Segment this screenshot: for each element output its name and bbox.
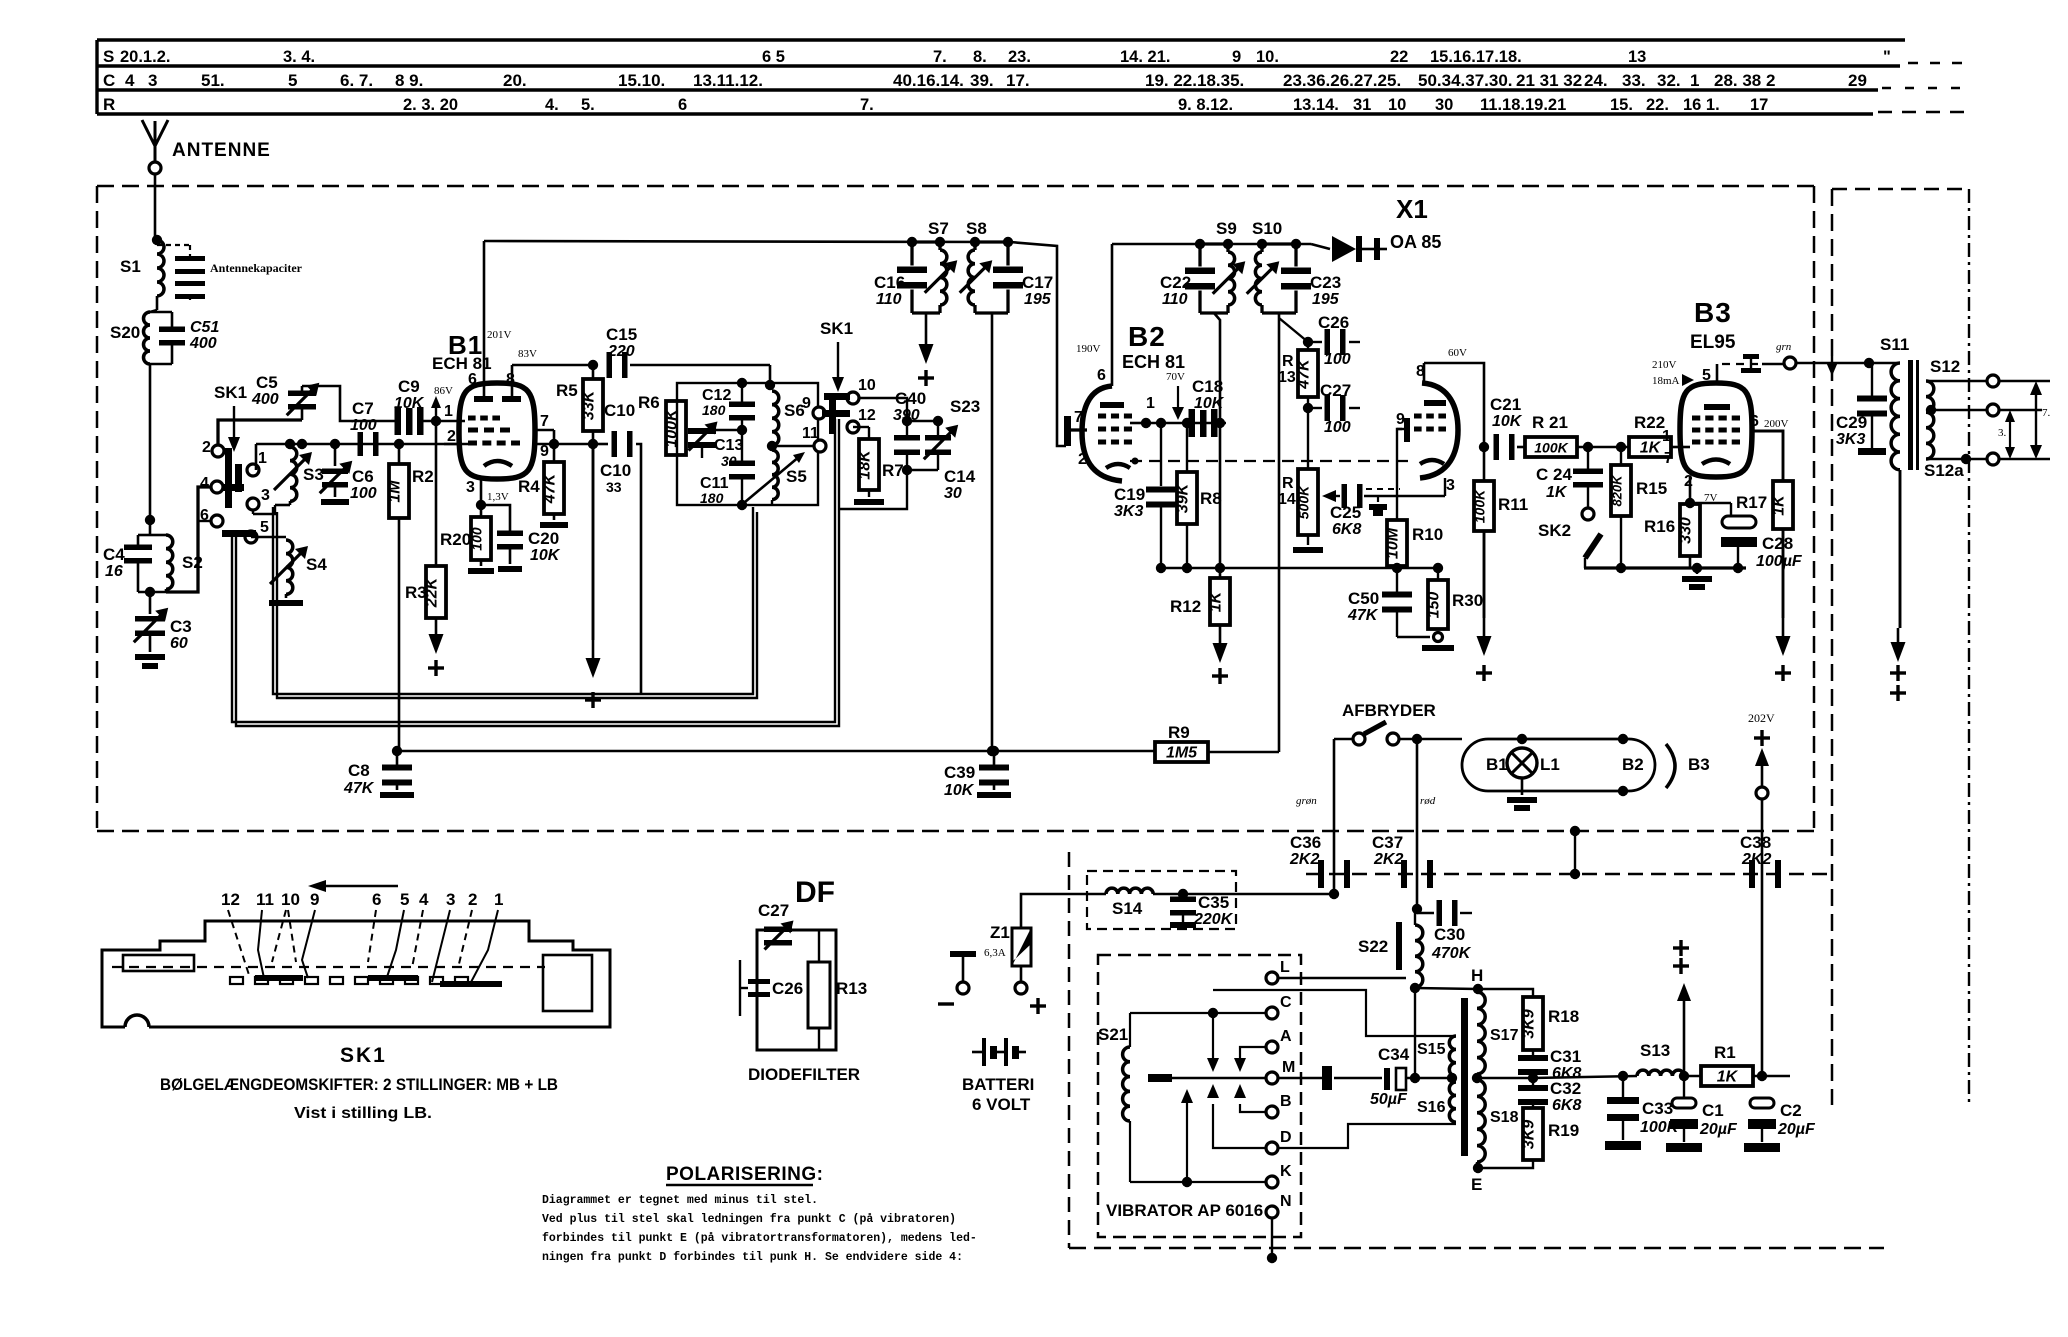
svg-text:C: C	[103, 71, 115, 90]
svg-text:R: R	[103, 95, 115, 114]
resistor R14 500K	[1293, 469, 1323, 553]
resistor R13 (DF)	[808, 930, 830, 1050]
svg-text:2: 2	[1684, 473, 1693, 490]
wire B2 pin8 to C21 node	[1424, 363, 1484, 447]
svg-text:C30: C30	[1434, 925, 1465, 944]
capacitor C9	[302, 386, 465, 435]
svg-text:B2: B2	[1128, 321, 1166, 352]
tank C16/S7	[897, 237, 957, 313]
SK1 leader lines	[228, 910, 498, 984]
svg-text:190V: 190V	[1076, 343, 1101, 355]
svg-text:2K2: 2K2	[1289, 851, 1319, 868]
svg-text:16: 16	[105, 563, 123, 580]
svg-text:R15: R15	[1636, 479, 1667, 498]
vibrator contact wires and arrows	[1130, 1008, 1277, 1263]
capacitor C38 2K2 feedthrough	[1749, 860, 1755, 888]
svg-text:31: 31	[1353, 96, 1371, 114]
svg-text:B2: B2	[1622, 755, 1644, 774]
B2 pin7 plate	[1064, 416, 1071, 446]
svg-text:3K3: 3K3	[1114, 503, 1143, 520]
svg-text:S21: S21	[1098, 1025, 1128, 1044]
wire C40 bottom to SK1 riser	[839, 470, 907, 509]
capacitor C24 1K	[1573, 447, 1603, 508]
wire S10 diagonal to C26 spine	[1279, 318, 1308, 342]
lamp L1	[1507, 748, 1537, 778]
svg-text:10.: 10.	[1256, 48, 1279, 66]
svg-text:202V: 202V	[1748, 711, 1775, 725]
svg-text:C32: C32	[1550, 1079, 1581, 1098]
svg-text:C31: C31	[1550, 1047, 1581, 1066]
svg-text:S13: S13	[1640, 1041, 1670, 1060]
svg-text:C39: C39	[944, 763, 975, 782]
svg-text:5: 5	[288, 71, 297, 90]
SK1 direction arrow	[308, 880, 398, 892]
svg-text:32.: 32.	[1657, 71, 1681, 90]
switch AFBRYDER	[1353, 722, 1462, 745]
wire S6/S5 tap to terminal 11	[772, 445, 814, 447]
wire R9 to S10 riser	[1208, 751, 1279, 754]
wire B3 pin5 topcap	[1717, 354, 1784, 383]
capacitor C11	[729, 430, 755, 510]
fuse Z1	[1012, 928, 1031, 994]
svg-text:DF: DF	[795, 876, 835, 909]
svg-text:S16: S16	[1417, 1099, 1446, 1116]
svg-text:470K: 470K	[1431, 945, 1472, 962]
svg-text:R2: R2	[412, 467, 434, 486]
svg-text:R30: R30	[1452, 591, 1483, 610]
svg-text:3: 3	[1446, 477, 1455, 494]
svg-text:OA 85: OA 85	[1390, 232, 1441, 252]
svg-text:15.: 15.	[1610, 96, 1633, 114]
capacitor C7	[358, 432, 364, 456]
svg-text:ECH 81: ECH 81	[1122, 352, 1185, 372]
output terminals	[1987, 375, 1999, 387]
svg-text:3: 3	[261, 487, 270, 504]
svg-text:S14: S14	[1112, 899, 1143, 918]
trimmer C5	[218, 383, 319, 446]
B3 cathode wire	[1689, 477, 1692, 507]
svg-text:20.: 20.	[503, 71, 527, 90]
svg-text:POLARISERING:: POLARISERING:	[666, 1164, 823, 1185]
svg-text:C16: C16	[874, 273, 905, 292]
svg-text:12: 12	[858, 407, 876, 424]
capacitor C51	[150, 312, 185, 364]
wire L to S22/H	[1278, 977, 1406, 979]
svg-text:K: K	[1280, 1163, 1292, 1180]
svg-text:C38: C38	[1740, 833, 1771, 852]
svg-text:33: 33	[606, 479, 622, 495]
svg-text:390: 390	[893, 407, 920, 424]
svg-text:201V: 201V	[487, 329, 512, 341]
svg-text:19. 22.18.35.: 19. 22.18.35.	[1145, 71, 1244, 90]
feedback loop wires pair A	[273, 507, 757, 698]
wire T10 to C40	[859, 398, 907, 421]
svg-text:10K: 10K	[394, 395, 425, 412]
svg-text:33.: 33.	[1622, 71, 1646, 90]
resistor R6 100K	[664, 401, 687, 455]
svg-text:1: 1	[494, 890, 503, 909]
svg-text:Vist i stilling LB.: Vist i stilling LB.	[294, 1105, 432, 1122]
SK1 right block	[543, 955, 592, 1011]
lamp housing box	[1462, 734, 1655, 796]
wire B1 pin6 to top rail	[483, 241, 486, 396]
output transformer S12 secondary	[1926, 381, 1988, 464]
switch SK1 terminal 2	[212, 445, 224, 457]
svg-text:500K: 500K	[1296, 485, 1312, 519]
svg-text:VIBRATOR AP 6016: VIBRATOR AP 6016	[1106, 1201, 1263, 1220]
svg-text:8.: 8.	[973, 48, 987, 66]
svg-text:B3: B3	[1688, 755, 1710, 774]
svg-text:10K: 10K	[530, 547, 561, 564]
202V supply point	[1748, 711, 1775, 1076]
SK1 contact row	[230, 975, 502, 987]
wire green feed (AFBRYDER to S14 line)	[1334, 738, 1353, 741]
svg-text:5: 5	[400, 890, 409, 909]
svg-text:6K8: 6K8	[1332, 521, 1361, 538]
svg-text:rød: rød	[1420, 795, 1436, 807]
svg-text:195: 195	[1024, 291, 1052, 308]
svg-text:6: 6	[678, 96, 687, 114]
svg-text:8: 8	[506, 371, 515, 388]
svg-text:15.10.: 15.10.	[618, 71, 665, 90]
vibrator reed arm	[1148, 1074, 1266, 1082]
svg-text:3K9: 3K9	[1521, 1009, 1538, 1038]
svg-text:24.: 24.	[1584, 71, 1608, 90]
svg-text:C21: C21	[1490, 395, 1521, 414]
svg-text:14. 21.: 14. 21.	[1120, 48, 1170, 66]
svg-text:C6: C6	[352, 467, 374, 486]
wire S20 down to C4/S2	[149, 364, 152, 535]
svg-text:C26: C26	[772, 979, 803, 998]
svg-text:9. 8.12.: 9. 8.12.	[1178, 96, 1233, 114]
terminal 9	[813, 407, 825, 419]
svg-text:13: 13	[1278, 369, 1296, 386]
switch SK2	[1582, 508, 1601, 568]
svg-text:13.11.12.: 13.11.12.	[693, 71, 763, 90]
voltage 70V arrow (B2)	[1166, 371, 1185, 420]
svg-text:3: 3	[446, 890, 455, 909]
svg-text:C33: C33	[1642, 1099, 1673, 1118]
svg-text:R19: R19	[1548, 1121, 1579, 1140]
switch SK1 terminal 3	[247, 498, 259, 510]
trimmer C3	[134, 592, 168, 652]
svg-text:Diagrammet er tegnet med minus: Diagrammet er tegnet med minus til stel.	[542, 1194, 818, 1207]
diode X1 OA85	[1311, 236, 1387, 262]
capacitor C20	[481, 505, 523, 572]
svg-text:R20: R20	[440, 530, 471, 549]
svg-text:3K9: 3K9	[1521, 1120, 1538, 1149]
svg-text:S2: S2	[182, 553, 203, 572]
svg-text:33K: 33K	[581, 389, 598, 420]
IF transformer box (R6/C12/C13/C11/S6/S5)	[677, 383, 818, 505]
svg-text:100µF: 100µF	[1756, 553, 1803, 570]
svg-text:R4: R4	[518, 477, 540, 496]
tank S10/C23	[1247, 239, 1311, 313]
svg-text:195: 195	[1312, 291, 1340, 308]
svg-text:100: 100	[1324, 419, 1351, 436]
svg-text:12: 12	[221, 890, 240, 909]
svg-text:28. 38 2: 28. 38 2	[1714, 71, 1775, 90]
coil S3	[274, 443, 312, 505]
capacitor C34 50uF electrolytic	[1326, 1066, 1457, 1090]
svg-text:6: 6	[1750, 413, 1759, 430]
tank S8/C17	[960, 237, 1023, 313]
svg-text:10: 10	[858, 377, 876, 394]
svg-text:1K: 1K	[1546, 484, 1568, 501]
svg-text:1M: 1M	[387, 480, 404, 503]
vibrator terminal A	[1266, 1041, 1278, 1053]
svg-text:17: 17	[1750, 96, 1768, 114]
svg-text:R9: R9	[1168, 723, 1190, 742]
svg-text:47K: 47K	[343, 780, 375, 797]
svg-text:3: 3	[148, 71, 157, 90]
svg-text:9: 9	[1396, 411, 1405, 428]
svg-text:C27: C27	[758, 901, 789, 920]
svg-text:400: 400	[251, 391, 279, 408]
svg-text:30: 30	[944, 485, 962, 502]
svg-text:R11: R11	[1498, 495, 1528, 514]
feedback loop wires pair B	[232, 419, 839, 726]
svg-text:C22: C22	[1160, 273, 1191, 292]
label SK1 (osc switch) with arrow	[820, 319, 853, 392]
wire T3 to S3 bottom	[252, 510, 254, 514]
svg-text:C34: C34	[1378, 1045, 1410, 1064]
svg-text:100K: 100K	[1472, 489, 1488, 523]
svg-text:4: 4	[125, 71, 135, 90]
wire Z1 to S14	[1021, 894, 1106, 928]
svg-text:C10: C10	[604, 401, 635, 420]
tank C22/S9	[1185, 239, 1245, 313]
polarisation note text	[542, 1194, 977, 1264]
svg-text:C35: C35	[1198, 893, 1229, 912]
primary coil S16	[1449, 1082, 1456, 1122]
wire S15 top to vibrator	[1213, 990, 1456, 1036]
switch SK1 terminal 4	[211, 481, 223, 493]
svg-text:1K: 1K	[1771, 494, 1788, 516]
svg-text:H: H	[1471, 966, 1483, 985]
resistor R10 10M	[1385, 429, 1408, 568]
svg-text:N: N	[1280, 1193, 1292, 1210]
wire T4 to S2/C4 junction	[166, 487, 212, 592]
wire S9 bottom to C18 node	[1200, 312, 1228, 315]
svg-text:100: 100	[1324, 351, 1351, 368]
wire red feed (switch to S22)	[1416, 739, 1419, 909]
svg-text:100: 100	[350, 485, 377, 502]
wire secondary centre tap to S13	[1477, 1077, 1533, 1079]
resistor R19 3K9	[1478, 1108, 1543, 1168]
antenna capacitor (Antennekapaciter)	[157, 245, 205, 300]
B2 pin numbers 6 7 2 1	[1074, 367, 1155, 468]
svg-text:C8: C8	[348, 761, 370, 780]
wire to S11	[1796, 362, 1900, 365]
vibrator terminal L	[1266, 972, 1278, 984]
svg-text:11: 11	[256, 890, 274, 909]
svg-text:2: 2	[202, 439, 211, 456]
svg-text:7: 7	[540, 413, 549, 430]
svg-text:S20: S20	[110, 323, 140, 342]
ground below L1	[1521, 778, 1524, 795]
svg-text:L: L	[1280, 959, 1290, 976]
vibrator dashed box	[1098, 955, 1301, 1237]
capacitor C4	[124, 535, 152, 592]
svg-text:10K: 10K	[1492, 413, 1523, 430]
svg-text:S1: S1	[120, 257, 141, 276]
capacitor C29 3K3	[1857, 363, 1887, 455]
svg-text:110: 110	[876, 291, 902, 308]
svg-text:SK2: SK2	[1538, 521, 1571, 540]
vibrator terminal D	[1266, 1142, 1278, 1154]
svg-text:330: 330	[1678, 517, 1695, 544]
svg-text:1M5: 1M5	[1166, 745, 1198, 762]
svg-text:C9: C9	[398, 377, 420, 396]
supply arrow below R11	[1483, 618, 1486, 640]
svg-text:60V: 60V	[1448, 347, 1467, 359]
switch SK1 wiper bars	[222, 448, 256, 537]
resistor R12 1K	[1208, 423, 1231, 625]
battery plus sign	[1030, 1004, 1046, 1007]
svg-text:SK1: SK1	[214, 383, 247, 402]
supply arrow below S7	[912, 313, 940, 386]
svg-text:7.: 7.	[860, 96, 874, 114]
supply arrow below S11	[1890, 470, 1906, 701]
trimmer C13	[688, 422, 747, 459]
right output dashed box	[1832, 189, 1969, 1105]
svg-text:30: 30	[1435, 96, 1453, 114]
svg-text:C5: C5	[256, 373, 278, 392]
svg-text:E: E	[1471, 1175, 1482, 1194]
svg-text:7.: 7.	[2042, 407, 2051, 419]
resistor R30 150	[1422, 568, 1454, 651]
svg-text:S22: S22	[1358, 937, 1388, 956]
wire S13 to R1	[1684, 1075, 1701, 1078]
svg-text:20µF: 20µF	[1777, 1121, 1816, 1138]
svg-text:R16: R16	[1644, 517, 1675, 536]
svg-text:180: 180	[702, 402, 726, 418]
tube B1 ECH81	[459, 383, 535, 479]
coil S1	[152, 235, 164, 296]
battery minus terminal	[938, 951, 976, 1004]
svg-text:C25: C25	[1330, 503, 1361, 522]
svg-text:grøn: grøn	[1296, 795, 1317, 807]
wire S10 bottom riser to R9	[1262, 312, 1296, 315]
svg-text:C4: C4	[103, 545, 125, 564]
resistor R5 33K	[581, 360, 604, 449]
wire B3 grid pin1/7	[1682, 446, 1690, 449]
svg-text:4.: 4.	[545, 96, 559, 114]
wire AVC line	[397, 750, 1155, 753]
wire B2 pin6 riser to tank rail	[1111, 244, 1114, 386]
capacitor C26 (DF)	[740, 960, 770, 1016]
svg-text:7V: 7V	[1704, 492, 1718, 504]
vibrator drive coil S21	[1123, 1047, 1130, 1121]
svg-text:S12: S12	[1930, 357, 1960, 376]
wire pin9 line with C10 33	[554, 431, 641, 694]
svg-text:1: 1	[258, 450, 267, 467]
capacitor C25 6K8 with arrow	[1322, 484, 1445, 516]
svg-text:1: 1	[1690, 71, 1699, 90]
svg-text:4: 4	[200, 475, 209, 492]
table row S labels	[103, 47, 1891, 66]
capacitor C32 6K8	[1518, 1085, 1548, 1108]
svg-text:7: 7	[1074, 409, 1083, 426]
svg-text:forbindes til punkt E (på vibr: forbindes til punkt E (på vibratortransf…	[542, 1232, 977, 1245]
svg-text:3: 3	[466, 479, 475, 496]
S14 filter dashed box	[1087, 871, 1236, 929]
tube B3 EL95	[1680, 383, 1752, 477]
B1 pin numbers	[444, 371, 549, 496]
wire R5 branch down to supply arrow	[592, 444, 595, 640]
capacitor C36 2K2 feedthrough	[1318, 860, 1324, 888]
resistor R15 820K	[1610, 447, 1632, 568]
power section dashed box	[1069, 852, 1884, 1248]
B2 grid1 wire	[1130, 418, 1226, 428]
svg-text:18K: 18K	[857, 449, 874, 480]
vibrator terminal N	[1266, 1206, 1278, 1218]
svg-text:C: C	[1280, 994, 1292, 1011]
svg-text:S15: S15	[1417, 1041, 1446, 1058]
svg-text:": "	[1883, 48, 1891, 66]
svg-text:C40: C40	[895, 389, 926, 408]
svg-text:1K: 1K	[1208, 590, 1225, 612]
wire B3 anode pin6 to R17	[1750, 431, 1783, 481]
svg-text:13: 13	[1628, 48, 1646, 66]
svg-text:820K: 820K	[1610, 474, 1625, 507]
capacitor C30 470K	[1417, 900, 1472, 926]
svg-text:100K: 100K	[664, 408, 681, 448]
svg-text:47K: 47K	[1347, 607, 1379, 624]
capacitor C28 100uF electrolytic	[1721, 503, 1757, 568]
svg-text:6K8: 6K8	[1552, 1097, 1581, 1114]
svg-text:7: 7	[1664, 450, 1673, 467]
svg-text:S: S	[103, 47, 114, 66]
SK1 centre dashed line	[112, 966, 545, 968]
svg-text:Z1: Z1	[990, 923, 1010, 942]
reference table frame	[97, 40, 1968, 114]
capacitor C40 390	[894, 421, 920, 475]
svg-text:M: M	[1282, 1059, 1295, 1076]
svg-text:R17: R17	[1736, 493, 1767, 512]
svg-text:S4: S4	[306, 555, 327, 574]
svg-text:EL95: EL95	[1690, 332, 1736, 353]
svg-text:S3: S3	[303, 465, 324, 484]
choke S14	[1106, 888, 1153, 894]
coil S2	[138, 535, 173, 597]
svg-text:C15: C15	[606, 325, 637, 344]
svg-text:20.1.2.: 20.1.2.	[120, 48, 170, 66]
capacitor C37 2K2 feedthrough	[1401, 860, 1407, 888]
resistor R2 1M	[387, 444, 410, 751]
trimmer S23	[907, 421, 958, 470]
supply takeoff arrow 12V	[1673, 940, 1691, 1076]
svg-text:6. 7.: 6. 7.	[340, 71, 373, 90]
resistor R3 22K	[424, 421, 447, 618]
svg-text:BØLGELÆNGDEOMSKIFTER: 2 STILLI: BØLGELÆNGDEOMSKIFTER: 2 STILLINGER: MB +…	[160, 1075, 558, 1094]
svg-text:9: 9	[1232, 48, 1241, 66]
coil S4	[251, 537, 308, 598]
capacitor C35 220K	[1170, 894, 1196, 928]
svg-text:2: 2	[447, 428, 456, 445]
vibrator transformer core	[1461, 998, 1468, 1156]
secondary coil S18	[1477, 1080, 1485, 1162]
svg-text:5.: 5.	[581, 96, 595, 114]
svg-text:C27: C27	[1320, 381, 1351, 400]
choke S13	[1637, 1070, 1684, 1076]
svg-text:47K: 47K	[1296, 358, 1313, 390]
svg-text:C51: C51	[190, 319, 219, 336]
top rail to S7/S8	[484, 241, 1010, 242]
svg-text:C26: C26	[1318, 313, 1349, 332]
svg-text:70V: 70V	[1166, 371, 1185, 383]
